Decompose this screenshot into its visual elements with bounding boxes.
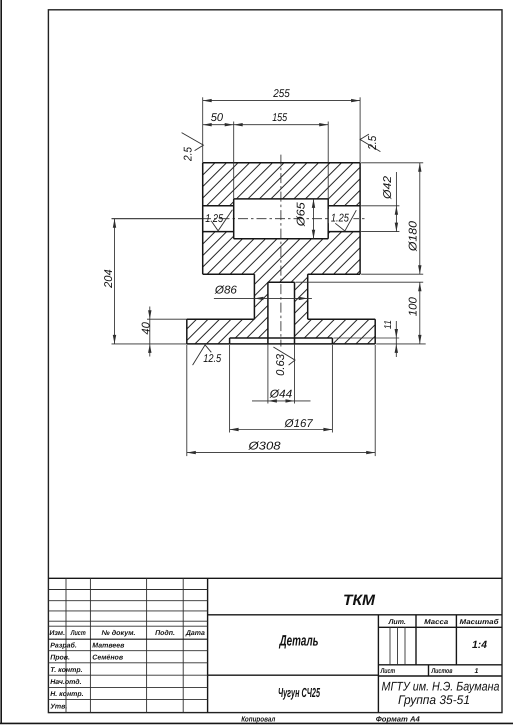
svg-text:Ø308: Ø308 bbox=[247, 441, 281, 453]
svg-text:Ø42: Ø42 bbox=[382, 175, 394, 200]
svg-text:155: 155 bbox=[272, 112, 288, 124]
svg-text:11: 11 bbox=[383, 320, 394, 329]
svg-text:Деталь: Деталь bbox=[278, 632, 318, 649]
svg-text:1:4: 1:4 bbox=[472, 639, 487, 651]
svg-text:Масса: Масса bbox=[424, 619, 448, 626]
svg-text:ТКМ: ТКМ bbox=[343, 592, 376, 609]
svg-text:Изм.: Изм. bbox=[49, 630, 65, 637]
svg-text:Дата: Дата bbox=[185, 630, 205, 637]
svg-text:1.25: 1.25 bbox=[331, 212, 350, 224]
svg-text:Ø180: Ø180 bbox=[408, 220, 420, 252]
svg-text:Ø44: Ø44 bbox=[269, 389, 293, 401]
svg-text:Ø167: Ø167 bbox=[284, 418, 314, 430]
svg-text:Ø86: Ø86 bbox=[214, 285, 238, 297]
svg-text:1.25: 1.25 bbox=[205, 213, 224, 225]
svg-text:12.5: 12.5 bbox=[203, 353, 222, 365]
svg-text:Формат А4: Формат А4 bbox=[376, 715, 421, 724]
svg-text:2.5: 2.5 bbox=[367, 135, 379, 151]
svg-text:Нач.отд.: Нач.отд. bbox=[50, 678, 81, 686]
svg-text:Пров.: Пров. bbox=[50, 655, 70, 662]
svg-text:Подп.: Подп. bbox=[155, 629, 175, 637]
svg-text:2.5: 2.5 bbox=[182, 146, 194, 162]
svg-text:100: 100 bbox=[408, 296, 420, 316]
svg-text:Матвеев: Матвеев bbox=[92, 643, 125, 650]
svg-text:Листов: Листов bbox=[431, 668, 453, 675]
svg-text:Чугун СЧ25: Чугун СЧ25 bbox=[278, 685, 320, 700]
svg-text:Лит.: Лит. bbox=[388, 619, 406, 626]
svg-text:Масштаб: Масштаб bbox=[460, 618, 500, 626]
svg-text:Разраб.: Разраб. bbox=[50, 642, 77, 650]
svg-text:Группа 35-51: Группа 35-51 bbox=[398, 693, 470, 707]
svg-text:0.63: 0.63 bbox=[275, 353, 287, 376]
svg-text:Лист: Лист bbox=[70, 630, 86, 637]
svg-text:40: 40 bbox=[140, 321, 152, 334]
svg-text:Т. контр.: Т. контр. bbox=[50, 667, 82, 674]
svg-text:Копировал: Копировал bbox=[241, 715, 275, 724]
svg-text:Утв.: Утв. bbox=[50, 704, 67, 711]
svg-text:255: 255 bbox=[272, 88, 290, 100]
svg-text:Ø65: Ø65 bbox=[296, 202, 308, 228]
svg-text:МГТУ им. Н.Э. Баумана: МГТУ им. Н.Э. Баумана bbox=[382, 680, 500, 694]
svg-text:Лист: Лист bbox=[380, 668, 395, 675]
svg-text:1: 1 bbox=[475, 668, 479, 675]
svg-text:204: 204 bbox=[103, 269, 115, 288]
svg-text:50: 50 bbox=[211, 112, 224, 124]
svg-text:Семёнов: Семёнов bbox=[92, 655, 124, 662]
svg-text:№ докум.: № докум. bbox=[102, 629, 136, 637]
svg-text:Н. контр.: Н. контр. bbox=[50, 691, 83, 698]
